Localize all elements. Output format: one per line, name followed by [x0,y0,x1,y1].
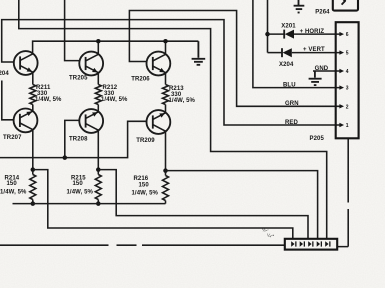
pin 3 arrow [339,85,348,91]
wire TR206 collector stub [165,41,167,55]
transistor TR209 [147,110,171,134]
svg-text:150: 150 [73,181,84,187]
ground top right (above P264) [294,0,305,13]
node R214 top junction [31,167,36,172]
svg-text:½-·: ½-· [262,227,269,233]
transistor TR208 [79,109,103,133]
svg-text:¼·•: ¼·• [267,232,274,238]
wire TR205 base from top edge [65,0,80,61]
wire R215 node to bottom connector [98,170,308,239]
wire TR207 base from left edge [2,81,14,120]
wire R211 to TR207 [32,105,34,112]
wire +HORIZ to pin 6 [268,33,285,35]
resistor R212 [95,85,101,105]
svg-text:TR207: TR207 [3,135,22,141]
wire TR207 collector down to node [32,130,34,170]
wire R216 node to bottom connector [166,171,318,239]
svg-text:+ VERT: + VERT [303,47,325,53]
svg-text:1/4W, 5%: 1/4W, 5% [101,97,128,103]
wire GRN net: TR206 base up, top rail, bus down to pin2 [129,11,340,107]
wire TR208 collector down to node [97,130,99,169]
connector P205 box [336,22,359,138]
svg-text:1/4W, 5%: 1/4W, 5% [132,191,159,197]
pin 2 arrow [339,104,348,110]
svg-text:6: 6 [346,32,349,38]
svg-text:5: 5 [346,51,349,57]
node TR206 collector junction [163,39,168,44]
diode X201 [284,30,341,39]
node TR205 collector junction [96,39,101,44]
pin 5 arrow [339,50,348,56]
svg-text:150: 150 [7,181,18,187]
node R215 top junction [96,167,101,172]
transistor TR207 [14,109,38,133]
pin 1 arrow [339,123,348,129]
wire TR206 emitter to R213 [165,73,167,85]
svg-text:1/4W, 5%: 1/4W, 5% [67,189,94,195]
svg-text:3: 3 [346,86,349,92]
node R216 top junction [163,168,168,173]
wire long rail to bottom connector left [0,244,285,246]
svg-text:TR206: TR206 [131,77,150,83]
diode X204 [282,48,341,57]
svg-text:2: 2 [346,104,349,110]
pin 4 arrow [339,69,348,75]
connector J bottom (picture tube socket) [285,239,337,250]
resistor R211 [30,85,36,105]
wire R213 to TR209 [165,105,167,113]
resistor R216 [163,171,169,204]
faint scan marks [262,227,274,239]
svg-text:RED: RED [285,120,299,126]
wire +VERT [268,52,283,54]
svg-text:330: 330 [171,92,182,98]
resistor R214 [30,170,36,204]
wire BLU net: from top edge bus down to pin3 [253,0,341,88]
svg-text:GRN: GRN [285,101,299,107]
junction dot +HORIZ [265,32,270,37]
transistor TR206 [147,52,171,76]
ground at GND wire [309,71,322,85]
svg-text:P264: P264 [315,9,330,15]
pin 6 arrow [339,32,348,38]
pin marks inside bottom connector [291,241,330,247]
svg-text:X201: X201 [281,24,296,30]
wire bus from top edge to bottom connector [19,0,327,239]
svg-text:BLU: BLU [283,83,296,89]
wire P205 bottom to connector right side [337,138,348,246]
resistor R215 [95,170,101,204]
svg-text:X204: X204 [279,62,294,68]
svg-text:GND: GND [315,66,329,72]
svg-text:204: 204 [0,71,9,77]
wire R212 to TR208 [97,105,99,112]
wire RED net: left edge down to TR204 base, top rail to bus [2,20,341,125]
wire TR205 emitter to R212 [97,73,99,85]
svg-text:TR208: TR208 [69,137,88,143]
resistor R213 [163,85,169,105]
node R215 bottom junction [96,201,101,206]
node TR208 base junction on rail [63,155,68,160]
wire TR208 base [65,120,80,157]
svg-text:1/4W, 5%: 1/4W, 5% [169,98,196,104]
ground at collector rail [192,41,206,65]
wire TR209 collector down to node [165,131,167,170]
svg-text:R216: R216 [134,176,149,182]
svg-text:150: 150 [139,183,150,189]
transistor TR204 [14,51,38,75]
wire TR204 emitter to R211 [32,72,34,84]
svg-text:TR205: TR205 [69,76,88,82]
wire TR205 collector stub [97,41,99,55]
svg-text:+ HORIZ: + HORIZ [300,29,325,35]
svg-text:4: 4 [346,69,349,75]
wire R214 node to bottom connector [33,170,293,239]
svg-text:1/4W, 5%: 1/4W, 5% [0,189,27,195]
svg-text:1/4W, 5%: 1/4W, 5% [35,97,62,103]
svg-text:1: 1 [346,123,349,129]
node X201 junction vertical from top edge to X204 corner [267,0,269,53]
transistor TR205 [79,52,103,76]
wire emitter rail y204 [13,203,166,205]
wire collector rail with ground [33,41,199,54]
node R214 bottom junction [31,201,36,206]
wire GND to pin 4 [313,70,341,72]
connector P264 (top, clipped) [333,0,358,11]
wire base rail bottom row [0,121,147,157]
svg-text:P205: P205 [310,136,325,142]
svg-text:TR209: TR209 [136,138,155,144]
